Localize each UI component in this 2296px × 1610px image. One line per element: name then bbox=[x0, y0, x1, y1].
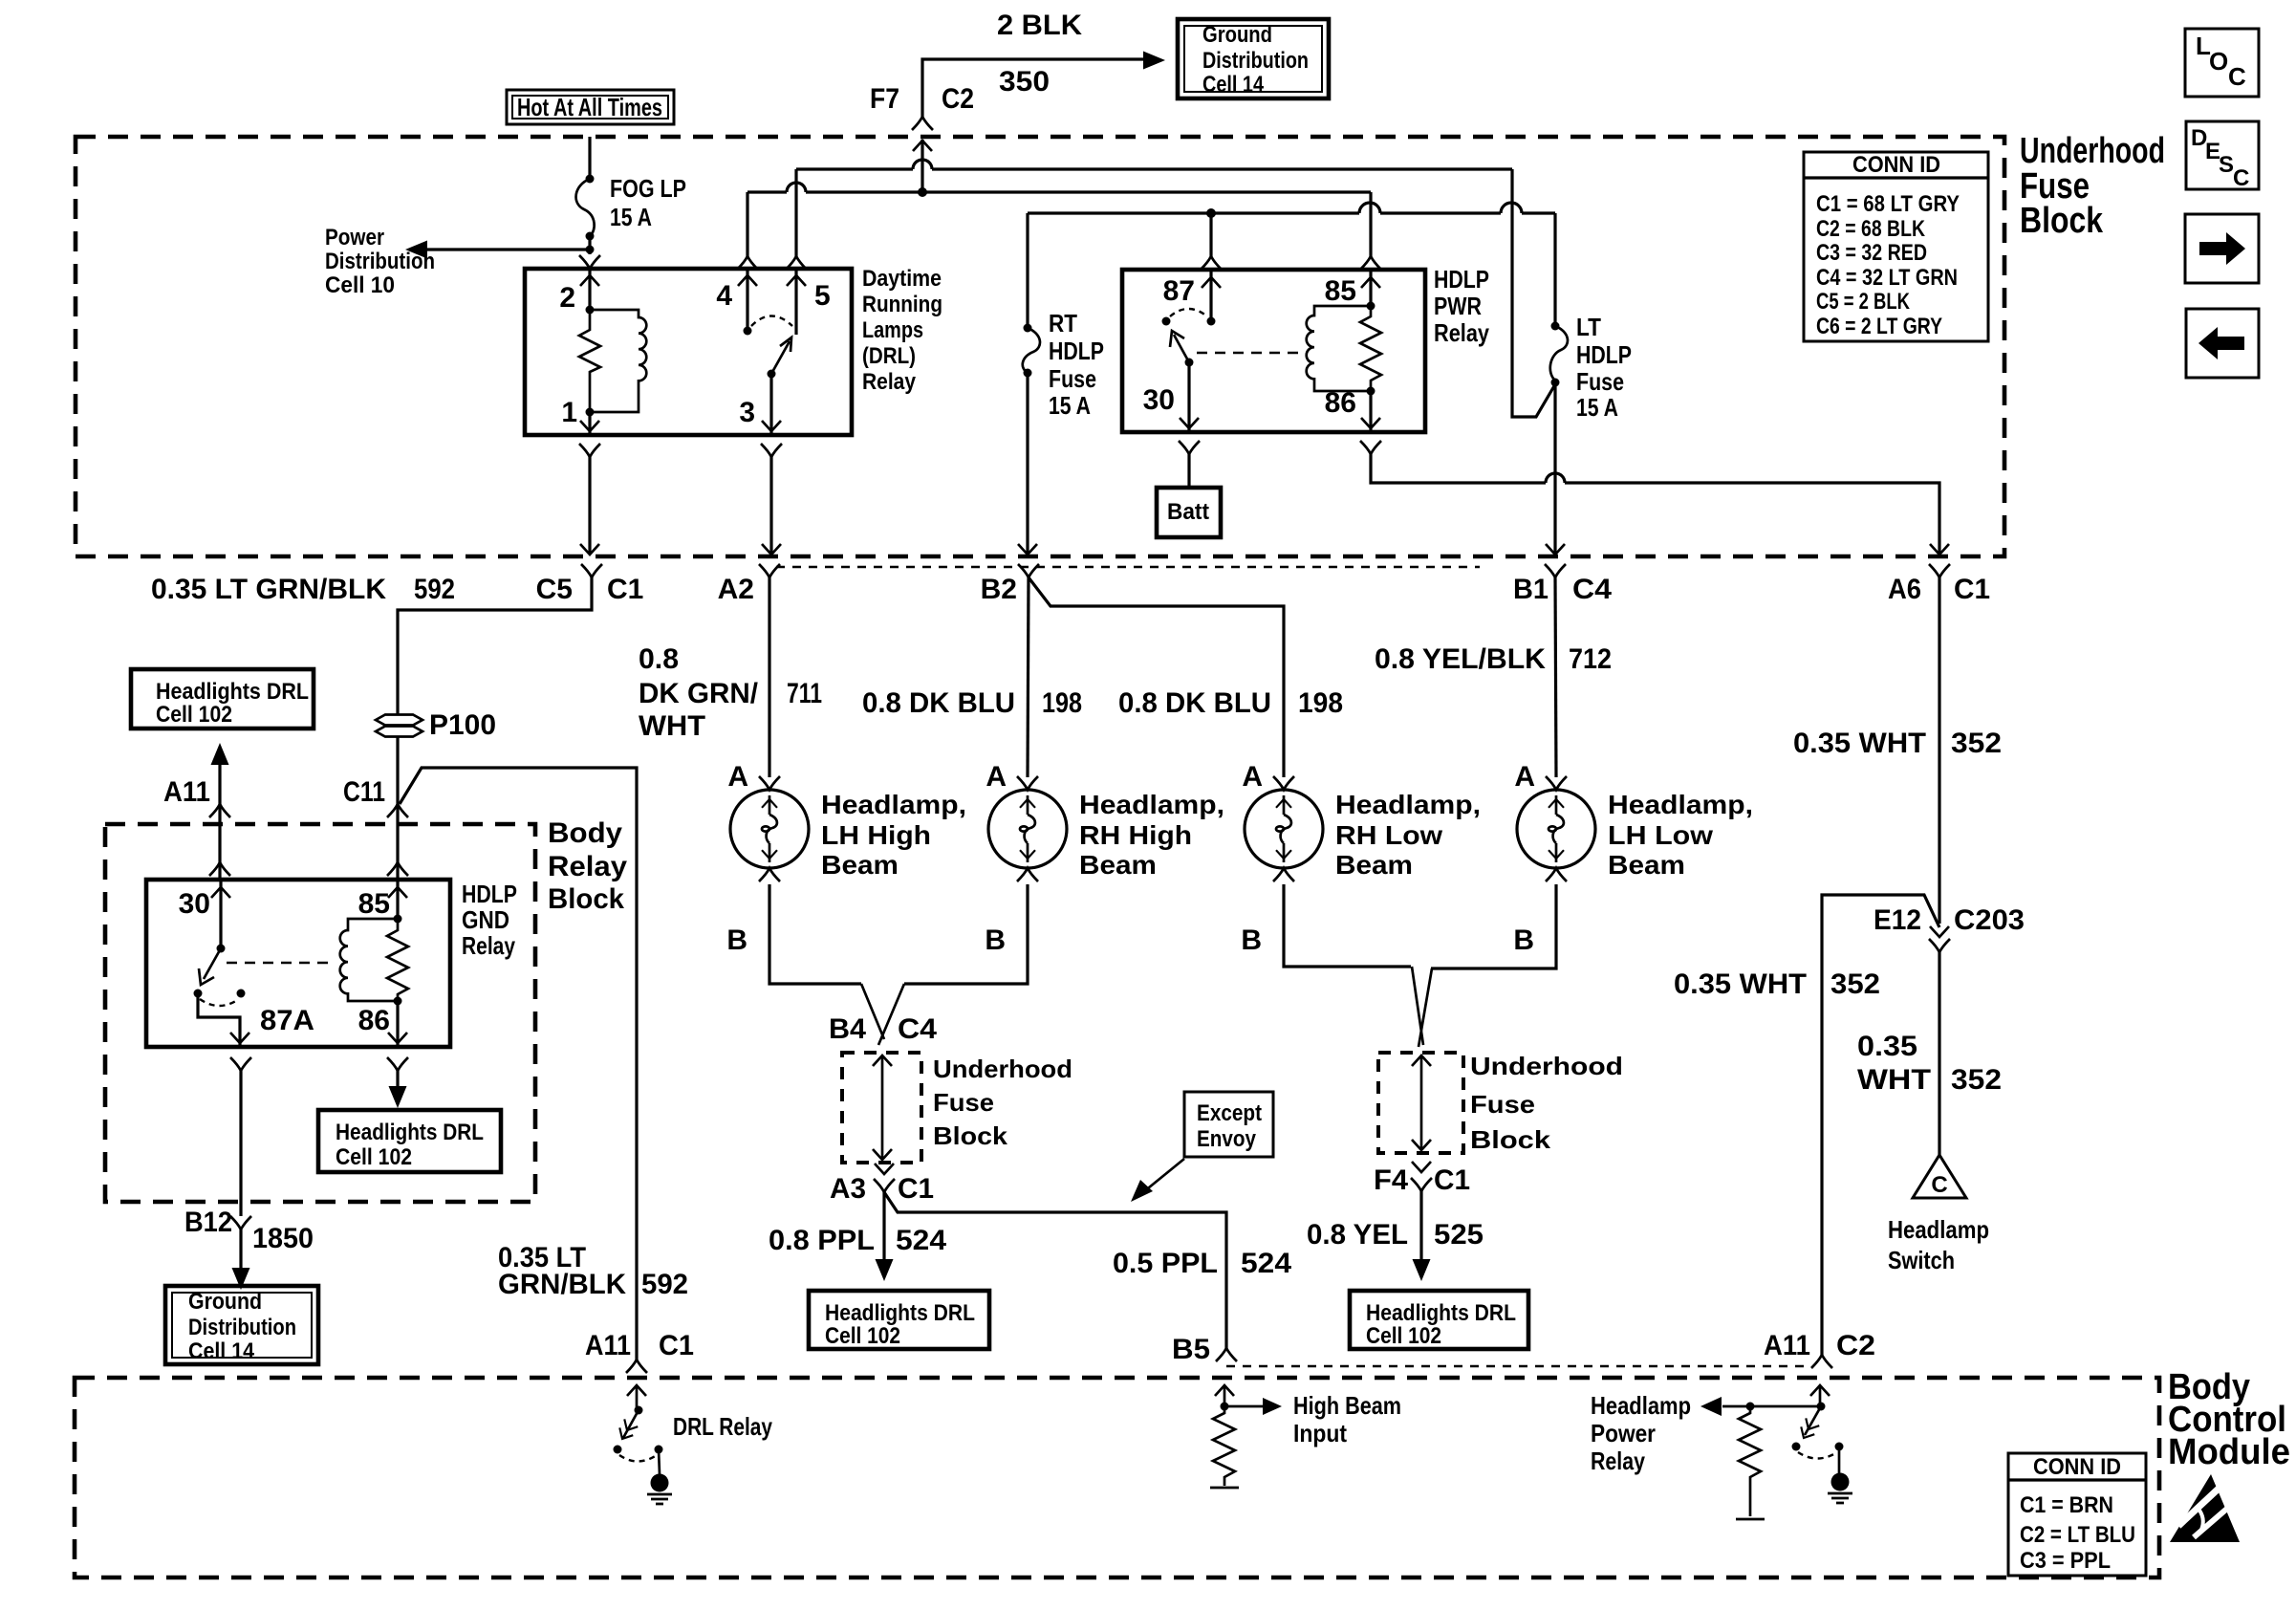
svg-text:Underhood: Underhood bbox=[1470, 1052, 1623, 1080]
box Headlights DRL Cell 102 (right) bbox=[1350, 1291, 1528, 1349]
svg-text:Beam: Beam bbox=[1608, 850, 1685, 880]
wire P100 to C11 bbox=[396, 737, 399, 807]
svg-text:Lamps: Lamps bbox=[862, 317, 923, 343]
fuse RT HDLP 15A bbox=[1023, 213, 1104, 553]
relay coil resistor (DRL) bbox=[579, 310, 600, 412]
pin 87A jog bbox=[198, 993, 240, 1047]
pin 2 bbox=[588, 269, 591, 310]
wire pin1 to C5 bbox=[579, 444, 600, 457]
relay resistor (HDLP GND) bbox=[387, 919, 408, 1001]
svg-text:0.35 WHT: 0.35 WHT bbox=[1793, 728, 1926, 759]
contact arc (HDLP PWR relay) bbox=[1170, 309, 1207, 316]
mech link dashes (HDLP PWR) bbox=[1197, 352, 1306, 354]
svg-text:712: 712 bbox=[1569, 643, 1612, 675]
fuse LT HDLP 15A bbox=[1550, 213, 1632, 553]
svg-text:GND: GND bbox=[462, 905, 509, 934]
wire pin4 riser bbox=[746, 192, 748, 256]
svg-text:Block: Block bbox=[933, 1121, 1008, 1150]
pin 85 bbox=[1369, 192, 1372, 256]
box Batt bbox=[1157, 488, 1221, 537]
svg-text:C2: C2 bbox=[942, 83, 974, 115]
svg-text:524: 524 bbox=[896, 1225, 946, 1256]
svg-text:0.8 YEL/BLK: 0.8 YEL/BLK bbox=[1375, 643, 1546, 675]
high beam input arrow bbox=[1215, 1385, 1234, 1396]
pin 86 bbox=[1369, 391, 1372, 432]
svg-text:Block: Block bbox=[1470, 1125, 1551, 1154]
splice merge into B4 bbox=[861, 984, 884, 1039]
svg-text:15 A: 15 A bbox=[610, 203, 652, 231]
pin 85 bbox=[396, 880, 399, 919]
box Headlights DRL Cell 102 (left) bbox=[318, 1110, 501, 1172]
svg-text:Headlights DRL: Headlights DRL bbox=[336, 1120, 484, 1145]
svg-text:592: 592 bbox=[641, 1269, 688, 1300]
svg-text:A: A bbox=[986, 761, 1007, 793]
icon next arrow bbox=[2185, 214, 2259, 283]
svg-text:Cell 102: Cell 102 bbox=[825, 1323, 900, 1349]
headlamp power relay arrow bbox=[1810, 1385, 1830, 1396]
svg-text:C11: C11 bbox=[343, 776, 385, 808]
svg-text:Headlights DRL: Headlights DRL bbox=[825, 1300, 975, 1326]
svg-text:30: 30 bbox=[1143, 384, 1175, 416]
headlamp RH Low Beam bbox=[1241, 761, 1481, 956]
svg-text:LT: LT bbox=[1576, 313, 1601, 341]
svg-text:Distribution: Distribution bbox=[1202, 48, 1309, 74]
relay coil (HDLP GND) bbox=[340, 919, 398, 1001]
svg-text:C: C bbox=[2233, 165, 2249, 191]
svg-text:86: 86 bbox=[358, 1005, 390, 1036]
wire LH high B to merge bbox=[769, 884, 861, 984]
svg-text:A6: A6 bbox=[1888, 574, 1921, 605]
svg-text:Relay: Relay bbox=[862, 369, 917, 395]
svg-text:Headlamp: Headlamp bbox=[1591, 1391, 1691, 1420]
svg-text:1: 1 bbox=[561, 397, 577, 428]
relay box Daytime Running Lamps DRL bbox=[525, 269, 852, 435]
svg-text:Daytime: Daytime bbox=[862, 266, 942, 292]
svg-text:0.5 PPL: 0.5 PPL bbox=[1113, 1248, 1218, 1279]
svg-text:Cell 10: Cell 10 bbox=[325, 272, 395, 298]
svg-text:E12: E12 bbox=[1874, 904, 1921, 936]
svg-text:5: 5 bbox=[814, 280, 831, 312]
svg-text:15 A: 15 A bbox=[1049, 391, 1091, 420]
svg-text:A11: A11 bbox=[585, 1330, 631, 1361]
icon back arrow bbox=[2186, 309, 2259, 378]
svg-text:Relay: Relay bbox=[1434, 318, 1489, 347]
svg-text:B: B bbox=[1241, 925, 1262, 956]
svg-text:350: 350 bbox=[999, 66, 1050, 98]
table CONN ID bcm bbox=[2008, 1453, 2146, 1576]
svg-text:S: S bbox=[2219, 152, 2234, 178]
svg-text:DK GRN/: DK GRN/ bbox=[639, 678, 759, 709]
splice merge into F4 bbox=[1412, 967, 1423, 1045]
svg-text:0.35 WHT: 0.35 WHT bbox=[1674, 968, 1807, 1000]
svg-text:4: 4 bbox=[716, 280, 732, 312]
svg-text:Envoy: Envoy bbox=[1197, 1126, 1257, 1152]
mech link dashes (HDLP GND) bbox=[227, 962, 333, 964]
wire E12 to headlamp switch bbox=[1938, 952, 1940, 1155]
box Headlights DRL Cell 102 (mid) bbox=[809, 1291, 989, 1349]
wire A3 to headlights drl bbox=[882, 1192, 885, 1260]
svg-text:A: A bbox=[1242, 761, 1263, 793]
svg-text:A3: A3 bbox=[830, 1173, 866, 1205]
table CONN ID underhood bbox=[1804, 152, 1988, 341]
resistor headlamp power bbox=[1736, 1406, 1765, 1519]
svg-text:Headlights DRL: Headlights DRL bbox=[156, 679, 309, 705]
svg-text:HDLP: HDLP bbox=[1576, 340, 1632, 369]
svg-text:0.8 YEL: 0.8 YEL bbox=[1307, 1219, 1408, 1251]
svg-text:2: 2 bbox=[559, 282, 575, 314]
contact dot 87A bbox=[194, 990, 203, 998]
svg-text:A: A bbox=[1514, 761, 1535, 793]
svg-text:352: 352 bbox=[1951, 728, 2002, 759]
svg-text:B1: B1 bbox=[1513, 574, 1549, 605]
svg-text:O: O bbox=[2209, 47, 2228, 76]
svg-text:Distribution: Distribution bbox=[188, 1315, 296, 1340]
svg-text:15 A: 15 A bbox=[1576, 393, 1618, 422]
svg-text:Distribution: Distribution bbox=[325, 249, 435, 274]
body control module dashed box bbox=[75, 1378, 2159, 1577]
underhood fuse block pass-through (F4) bbox=[1378, 1052, 1623, 1154]
svg-text:Switch: Switch bbox=[1888, 1246, 1955, 1274]
pin 30 bbox=[1187, 362, 1190, 432]
resistor high beam input bbox=[1210, 1406, 1239, 1488]
svg-text:Running: Running bbox=[862, 292, 942, 317]
svg-text:85: 85 bbox=[1325, 275, 1356, 307]
svg-text:C1: C1 bbox=[1434, 1164, 1470, 1196]
svg-text:Beam: Beam bbox=[1335, 850, 1413, 880]
underhood fuse block pass-through (B4-A3) bbox=[842, 1053, 1072, 1163]
wire headlamp power relay bbox=[1722, 1405, 1821, 1408]
svg-text:F4: F4 bbox=[1374, 1164, 1408, 1196]
wire RH low B to merge bbox=[1284, 884, 1411, 967]
svg-text:C4: C4 bbox=[898, 1013, 937, 1045]
svg-text:B: B bbox=[726, 925, 747, 956]
contact dot (nc) bbox=[237, 990, 246, 998]
svg-text:Except: Except bbox=[1197, 1100, 1262, 1126]
svg-text:B2: B2 bbox=[981, 574, 1017, 605]
relay box HDLP PWR bbox=[1122, 270, 1425, 432]
box Ground Distribution Cell 14 (left) bbox=[165, 1286, 318, 1364]
junction node at fog lp output bbox=[586, 246, 595, 254]
label Except Envoy box bbox=[1131, 1092, 1273, 1202]
wire A11 up to headlights drl bbox=[211, 743, 229, 765]
svg-text:C2 = 68 BLK: C2 = 68 BLK bbox=[1816, 216, 1926, 242]
svg-text:Ground: Ground bbox=[1202, 22, 1272, 48]
wire pin3 to A2 bbox=[761, 444, 782, 457]
svg-text:B: B bbox=[985, 925, 1006, 956]
svg-text:Cell 14: Cell 14 bbox=[1202, 72, 1265, 98]
svg-text:HDLP: HDLP bbox=[1434, 265, 1489, 294]
wire fog lp to DRL relay pin 2 bbox=[588, 250, 591, 254]
svg-text:Batt: Batt bbox=[1167, 499, 1209, 525]
wire branch C11 to BCM A11 C1 bbox=[400, 768, 637, 1360]
box Headlights DRL Cell 102 (top left) bbox=[131, 669, 314, 729]
pin 1 bbox=[588, 412, 591, 435]
wire B2 to RH high lamp bbox=[1028, 577, 1029, 777]
svg-text:Input: Input bbox=[1293, 1419, 1347, 1447]
wire pin5 riser bbox=[794, 169, 797, 256]
bus wire line1 from pin5 to LT fuse bbox=[796, 167, 1512, 170]
svg-text:C5: C5 bbox=[536, 574, 573, 605]
svg-text:1850: 1850 bbox=[252, 1223, 314, 1254]
svg-text:C2 = LT BLU: C2 = LT BLU bbox=[2020, 1522, 2135, 1548]
headlamp RH High Beam bbox=[985, 761, 1224, 956]
svg-text:Underhood: Underhood bbox=[933, 1055, 1072, 1083]
svg-text:RH High: RH High bbox=[1079, 820, 1192, 850]
svg-text:711: 711 bbox=[787, 678, 822, 709]
svg-text:HDLP: HDLP bbox=[462, 880, 517, 908]
svg-text:C1: C1 bbox=[1954, 574, 1990, 605]
hop over line1 drop bbox=[1501, 203, 1522, 213]
svg-text:Block: Block bbox=[548, 883, 624, 915]
harness connector dashed edge bottom bbox=[1226, 1365, 1809, 1367]
wire pin86 to A6 (line4) bbox=[1360, 441, 1381, 454]
svg-text:A11: A11 bbox=[1764, 1330, 1810, 1361]
relay coil (DRL) bbox=[590, 310, 646, 412]
svg-text:C3 = PPL: C3 = PPL bbox=[2020, 1548, 2111, 1574]
svg-text:High Beam: High Beam bbox=[1293, 1391, 1401, 1420]
svg-text:Headlamp,: Headlamp, bbox=[1608, 790, 1753, 819]
svg-text:3: 3 bbox=[739, 397, 755, 428]
svg-text:0.35: 0.35 bbox=[1857, 1031, 1917, 1062]
svg-text:C6 = 2 LT GRY: C6 = 2 LT GRY bbox=[1816, 314, 1942, 339]
svg-text:C4: C4 bbox=[1572, 574, 1612, 605]
icon LOC bbox=[2185, 29, 2259, 97]
svg-text:FOG LP: FOG LP bbox=[610, 174, 686, 203]
wire B1 to LH low lamp bbox=[1555, 577, 1556, 777]
svg-text:C1 = BRN: C1 = BRN bbox=[2020, 1492, 2113, 1518]
svg-text:Headlamp: Headlamp bbox=[1888, 1215, 1989, 1244]
svg-text:Ground: Ground bbox=[188, 1289, 262, 1315]
wire 87A to B12 bbox=[230, 1057, 251, 1071]
pin 30 bbox=[219, 880, 222, 948]
svg-text:LH Low: LH Low bbox=[1608, 820, 1713, 850]
headlamp LH High Beam bbox=[726, 761, 966, 956]
svg-text:0.35 LT GRN/BLK: 0.35 LT GRN/BLK bbox=[151, 574, 386, 605]
svg-text:85: 85 bbox=[358, 888, 390, 920]
bus wire line3 RT fuse to LT fuse bbox=[1028, 211, 1555, 214]
svg-text:Cell 14: Cell 14 bbox=[188, 1338, 255, 1364]
wire B12 to ground distribution bbox=[239, 1229, 242, 1269]
svg-text:Module: Module bbox=[2168, 1432, 2290, 1472]
pin 4 bbox=[746, 269, 748, 331]
svg-text:Hot At All Times: Hot At All Times bbox=[517, 93, 662, 121]
svg-text:Power: Power bbox=[325, 225, 384, 250]
svg-text:Relay: Relay bbox=[462, 931, 515, 960]
svg-text:87: 87 bbox=[1163, 275, 1195, 307]
svg-text:0.8 DK BLU: 0.8 DK BLU bbox=[1118, 687, 1271, 719]
wire to power distribution bbox=[425, 248, 590, 250]
wire pin30 to Batt bbox=[1179, 441, 1200, 454]
switch contact arc (DRL relay) bbox=[751, 316, 792, 327]
headlamp LH Low Beam bbox=[1513, 761, 1753, 956]
box Ground Distribution Cell 14 bbox=[1178, 19, 1329, 98]
svg-text:Underhood: Underhood bbox=[2020, 131, 2165, 171]
svg-text:Cell 102: Cell 102 bbox=[336, 1144, 412, 1170]
svg-text:CONN ID: CONN ID bbox=[2033, 1454, 2121, 1480]
esd symbol bbox=[2170, 1474, 2240, 1542]
splice Headlamp Switch bbox=[1888, 1155, 1989, 1274]
pin 3 bbox=[769, 374, 772, 435]
switch arm (HDLP GND relay) bbox=[204, 948, 221, 979]
svg-text:CONN ID: CONN ID bbox=[1852, 152, 1940, 178]
harness connector dashed edge top bbox=[776, 566, 1480, 568]
branch B2 to RH low lamp bbox=[1029, 577, 1284, 777]
hop over F7 wire bbox=[913, 160, 932, 169]
arrow into fuse block at F7 bbox=[913, 141, 932, 151]
svg-text:Power: Power bbox=[1591, 1419, 1656, 1447]
hop over pin5 riser bbox=[787, 183, 806, 192]
svg-text:525: 525 bbox=[1434, 1219, 1484, 1251]
svg-text:WHT: WHT bbox=[1857, 1064, 1931, 1096]
svg-text:WHT: WHT bbox=[639, 710, 705, 742]
relay resistor (HDLP PWR) bbox=[1360, 306, 1381, 391]
svg-text:PWR: PWR bbox=[1434, 292, 1482, 320]
connector C2 symbol bbox=[912, 117, 933, 130]
wire A2 to LH high lamp bbox=[768, 577, 770, 777]
switch arm (HDLP PWR relay) bbox=[1185, 359, 1194, 367]
svg-text:86: 86 bbox=[1325, 387, 1356, 419]
label Hot At All Times bbox=[507, 90, 674, 124]
wire high beam label arrow bbox=[1224, 1405, 1265, 1408]
bus wire line2 from pin4 to relay pin 85 bbox=[747, 190, 1371, 193]
svg-text:0.8: 0.8 bbox=[639, 643, 679, 675]
svg-text:524: 524 bbox=[1241, 1248, 1291, 1279]
svg-text:RH Low: RH Low bbox=[1335, 820, 1442, 850]
underhood fuse block dashed box bbox=[76, 137, 2004, 556]
svg-text:C1: C1 bbox=[607, 574, 643, 605]
icon DESC bbox=[2186, 121, 2259, 191]
svg-text:C1 = 68 LT GRY: C1 = 68 LT GRY bbox=[1816, 191, 1960, 217]
svg-text:Cell 102: Cell 102 bbox=[156, 702, 232, 728]
svg-text:2 BLK: 2 BLK bbox=[997, 10, 1082, 41]
svg-text:Fuse: Fuse bbox=[1470, 1090, 1535, 1119]
relay box HDLP GND bbox=[146, 880, 450, 1047]
svg-text:A: A bbox=[727, 761, 748, 793]
fuse FOG LP 15A bbox=[576, 137, 686, 250]
relay coil (HDLP PWR) bbox=[1307, 306, 1371, 391]
svg-text:Headlamp,: Headlamp, bbox=[1335, 790, 1481, 819]
svg-text:Beam: Beam bbox=[821, 850, 899, 880]
svg-text:C: C bbox=[2228, 62, 2246, 91]
switch arm (DRL relay) bbox=[768, 370, 776, 379]
switch contact dot 87 bbox=[1162, 317, 1171, 326]
switch DRL Relay (bcm) bbox=[614, 1406, 773, 1462]
svg-text:(DRL): (DRL) bbox=[862, 343, 916, 369]
svg-text:A11: A11 bbox=[163, 776, 210, 808]
svg-text:198: 198 bbox=[1042, 687, 1082, 719]
wire 0.5 PPL branch to B5 bbox=[884, 1192, 1226, 1348]
wire 592 jog to P100 bbox=[398, 577, 592, 714]
svg-text:P100: P100 bbox=[429, 709, 496, 741]
svg-text:Cell 102: Cell 102 bbox=[1366, 1323, 1441, 1349]
wire branch at E12 to BCM A11 C2 bbox=[1822, 895, 1939, 1355]
line1 drop to LT fuse bbox=[1512, 169, 1555, 417]
junction F7 on line2 bbox=[918, 187, 927, 197]
body relay block dashed box bbox=[105, 824, 535, 1202]
svg-text:C: C bbox=[1931, 1172, 1947, 1198]
node junction high beam bbox=[1221, 1403, 1229, 1411]
connector P100 bbox=[376, 709, 496, 741]
svg-text:C4 = 32 LT GRN: C4 = 32 LT GRN bbox=[1816, 265, 1958, 291]
svg-text:Headlights DRL: Headlights DRL bbox=[1366, 1300, 1516, 1326]
svg-text:Fuse: Fuse bbox=[933, 1088, 994, 1117]
wire F4 to headlights drl bbox=[1419, 1191, 1422, 1260]
svg-text:Beam: Beam bbox=[1079, 850, 1157, 880]
svg-text:198: 198 bbox=[1298, 687, 1343, 719]
switch node dot bbox=[1817, 1403, 1826, 1411]
wire 86 to headlights drl (left) bbox=[387, 1057, 408, 1071]
switch headlamp power relay bbox=[1792, 1406, 1844, 1459]
svg-text:C3 = 32 RED: C3 = 32 RED bbox=[1816, 240, 1927, 266]
svg-text:0.8 PPL: 0.8 PPL bbox=[769, 1225, 875, 1256]
svg-text:C1: C1 bbox=[659, 1330, 694, 1361]
svg-text:Body: Body bbox=[548, 817, 622, 849]
svg-text:DRL Relay: DRL Relay bbox=[673, 1412, 772, 1441]
wire LH low B to merge bbox=[1431, 884, 1556, 968]
hop over B1 wire bbox=[1546, 473, 1565, 483]
svg-text:Headlamp,: Headlamp, bbox=[821, 790, 966, 819]
svg-text:C5 = 2 BLK: C5 = 2 BLK bbox=[1816, 289, 1911, 315]
svg-text:Headlamp,: Headlamp, bbox=[1079, 790, 1224, 819]
svg-text:C203: C203 bbox=[1954, 904, 2025, 936]
svg-text:Relay: Relay bbox=[1591, 1447, 1645, 1475]
svg-text:LH High: LH High bbox=[821, 820, 931, 850]
wire F7 feed to ground distribution bbox=[922, 59, 1143, 117]
svg-text:C1: C1 bbox=[898, 1173, 934, 1205]
svg-text:0.8 DK BLU: 0.8 DK BLU bbox=[862, 687, 1015, 719]
pin 5 bbox=[794, 269, 797, 335]
junction pin 87 on line3 bbox=[1206, 208, 1216, 218]
svg-text:Fuse: Fuse bbox=[1576, 367, 1624, 396]
svg-text:C2: C2 bbox=[1836, 1330, 1875, 1361]
svg-text:352: 352 bbox=[1951, 1064, 2002, 1096]
wire A6 down bbox=[1938, 577, 1940, 924]
svg-text:Fuse: Fuse bbox=[1049, 364, 1096, 393]
svg-text:87A: 87A bbox=[260, 1005, 314, 1036]
wire RH high B to merge bbox=[904, 884, 1028, 984]
svg-text:352: 352 bbox=[1830, 968, 1880, 1000]
svg-text:B4: B4 bbox=[829, 1013, 866, 1045]
svg-text:Relay: Relay bbox=[548, 851, 627, 882]
contact arc (HDLP GND relay) bbox=[200, 999, 239, 1006]
svg-text:B5: B5 bbox=[1172, 1334, 1210, 1365]
svg-text:HDLP: HDLP bbox=[1049, 337, 1104, 365]
svg-text:592: 592 bbox=[414, 574, 455, 605]
arrowhead to ground distribution box bbox=[1143, 52, 1165, 70]
svg-text:B12: B12 bbox=[184, 1207, 232, 1238]
svg-text:A2: A2 bbox=[718, 574, 754, 605]
svg-text:F7: F7 bbox=[870, 83, 899, 115]
svg-text:30: 30 bbox=[179, 888, 210, 920]
svg-text:B: B bbox=[1513, 925, 1534, 956]
DRL relay input arrow bbox=[627, 1385, 646, 1396]
pin 86 bbox=[396, 1001, 399, 1047]
svg-text:Block: Block bbox=[2020, 201, 2104, 241]
ground (headlamp power relay) bbox=[1828, 1447, 1852, 1503]
pin 87 bbox=[1209, 213, 1212, 256]
ground (DRL relay) bbox=[647, 1449, 672, 1504]
hop over pin85 riser bbox=[1359, 203, 1380, 213]
svg-text:RT: RT bbox=[1049, 309, 1077, 337]
svg-text:GRN/BLK: GRN/BLK bbox=[498, 1269, 626, 1300]
